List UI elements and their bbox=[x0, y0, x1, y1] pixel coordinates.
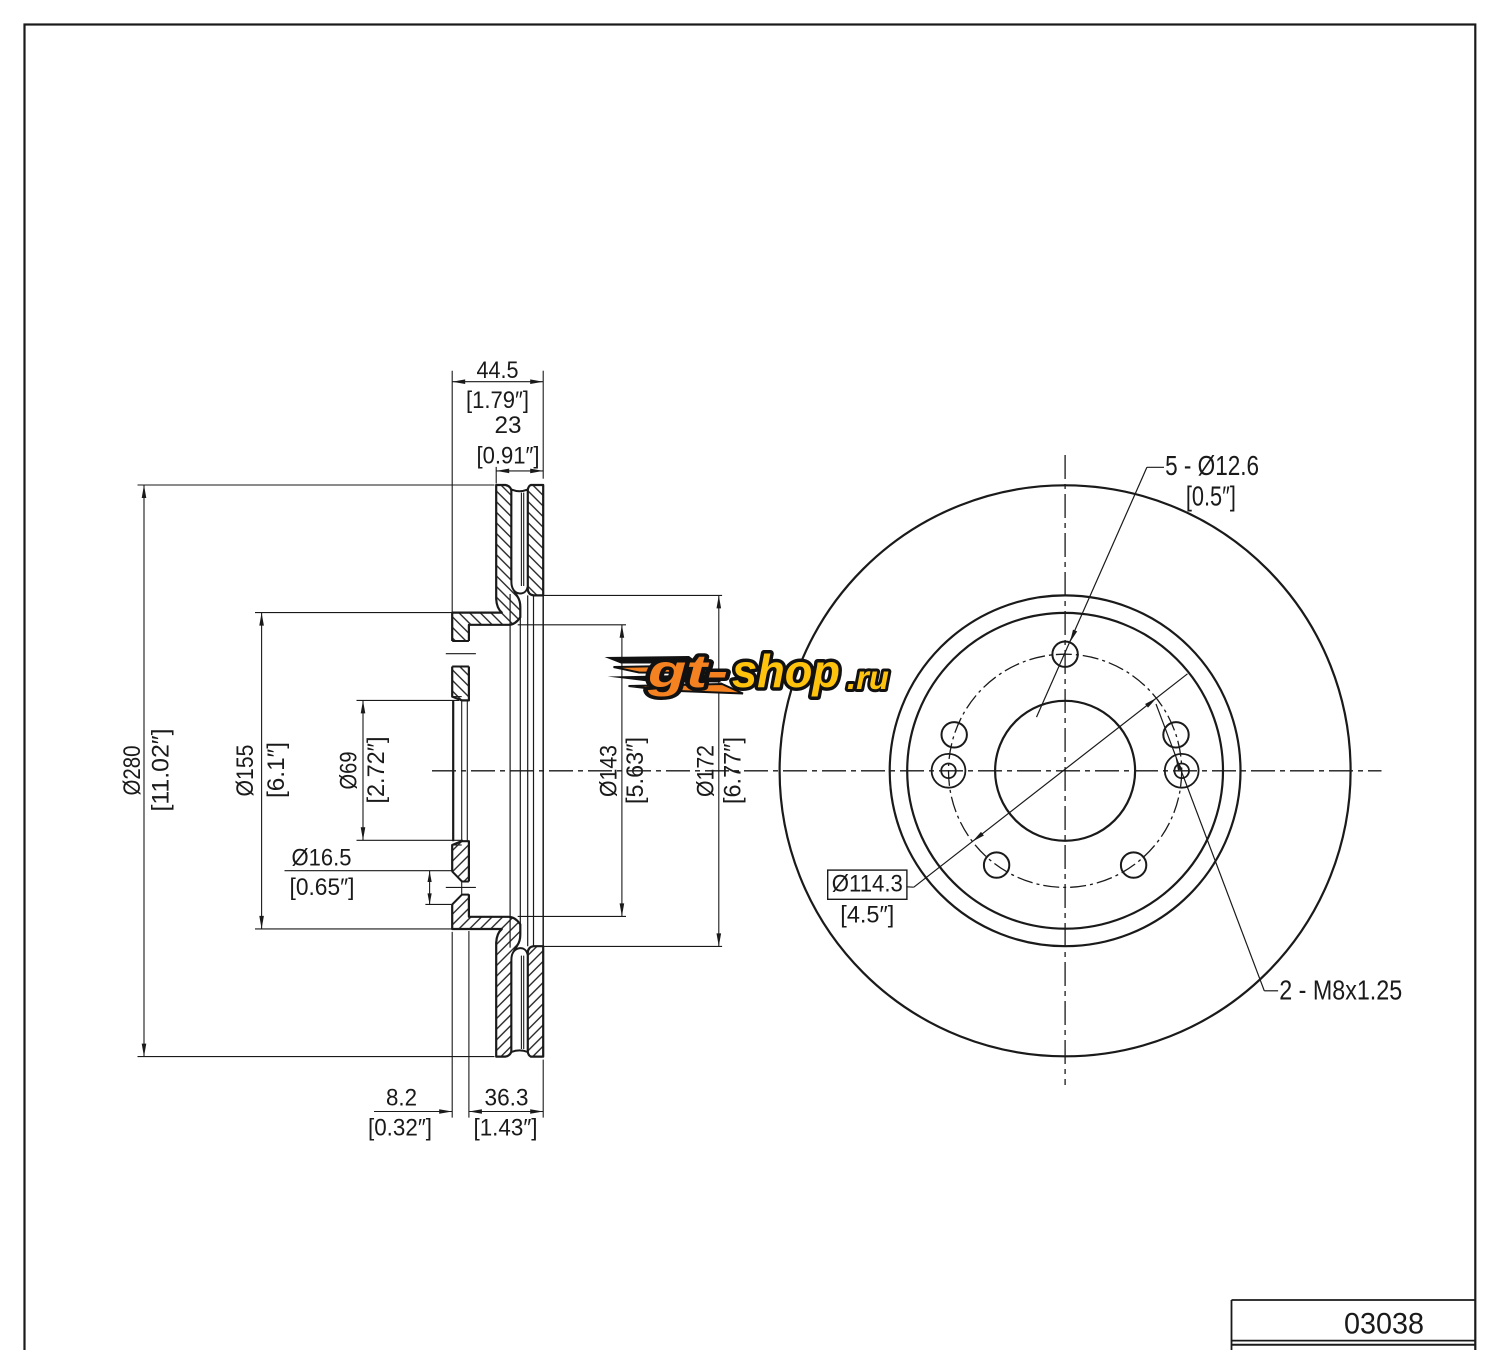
svg-text:[1.43″]: [1.43″] bbox=[474, 1115, 538, 1142]
bolt hole Ø12.6 cut through hat wall (top half) bbox=[451, 641, 470, 667]
bolt circle diameter leader line bbox=[914, 674, 1188, 887]
dim Ø172: dimension line with arrows bbox=[718, 595, 720, 946]
dim Ø143: extension lines bbox=[518, 624, 626, 626]
section view: vent channel slot (top half) bbox=[511, 490, 527, 594]
section view: hatched left plate + hat flange + hat wall (bottom half, mirrored) bbox=[452, 841, 520, 1056]
gt-shop.ru watermark logo bbox=[605, 645, 890, 697]
lug bolt hole Ø12.6 #4 bbox=[1121, 852, 1146, 877]
dim 8.2: dimension line with outside arrow bbox=[374, 1111, 452, 1113]
svg-text:[0.91″]: [0.91″] bbox=[477, 442, 540, 469]
vent vane edge lines inside channel (top) bbox=[520, 493, 522, 586]
svg-text:.ru: .ru bbox=[847, 659, 889, 696]
leader 2 - M8x1.25 bbox=[1156, 704, 1264, 991]
svg-text:23: 23 bbox=[495, 412, 522, 439]
svg-text:[11.02″]: [11.02″] bbox=[148, 729, 175, 812]
vent vane edge lines inside channel (bottom) bbox=[520, 956, 522, 1049]
svg-text:Ø155: Ø155 bbox=[232, 745, 259, 797]
fillet silhouette line (x=520.3) bbox=[519, 617, 521, 924]
svg-text:Ø172: Ø172 bbox=[693, 745, 720, 797]
lug bolt hole Ø12.6 #1 bbox=[1052, 642, 1077, 667]
svg-text:8.2: 8.2 bbox=[386, 1085, 417, 1112]
dim Ø16.5 leader and mini dimension bbox=[285, 870, 452, 872]
leader 5 - Ø12.6 bbox=[1147, 466, 1164, 468]
svg-text:gt-: gt- bbox=[647, 645, 728, 697]
title block bbox=[1232, 1299, 1476, 1301]
dim 44.5: extension lines bbox=[451, 371, 453, 612]
dim Ø155: dimension line with arrows bbox=[261, 613, 263, 929]
dim Ø69: dimension line with arrows bbox=[362, 700, 364, 840]
main horizontal centerline (dash-dot) bbox=[432, 770, 1382, 772]
chamfer edge line at hat bore (bottom) bbox=[452, 844, 462, 846]
bore wall line (x=467.3) bbox=[466, 700, 468, 841]
M8 tapped hole with Ø16.5 spot face, in hat wall (bottom half) bbox=[451, 871, 470, 904]
chamfer edge line at hat bore (top) bbox=[452, 696, 462, 698]
svg-text:36.3: 36.3 bbox=[485, 1085, 529, 1112]
svg-text:[6.1″]: [6.1″] bbox=[263, 742, 290, 798]
silhouette line below vent (x=510.1) bbox=[509, 594, 511, 948]
svg-text:5 - Ø12.6: 5 - Ø12.6 bbox=[1165, 450, 1259, 481]
svg-text:[1.79″]: [1.79″] bbox=[466, 387, 529, 414]
svg-text:[5.63″]: [5.63″] bbox=[622, 737, 649, 804]
dim Ø172: extension lines bbox=[542, 594, 722, 596]
svg-text:Ø280: Ø280 bbox=[119, 746, 146, 796]
right plate face continuation (x=527.7) bbox=[527, 595, 529, 946]
center bore circle Ø69 bbox=[995, 701, 1135, 841]
svg-text:44.5: 44.5 bbox=[477, 357, 519, 384]
dim Ø155: extension lines bbox=[255, 612, 452, 614]
outer circle Ø280 bbox=[780, 485, 1351, 1056]
bolt circle Ø114.3 (dash-dot) bbox=[949, 654, 1182, 887]
svg-text:Ø114.3: Ø114.3 bbox=[832, 871, 903, 898]
section view: hatched right plate, bottom half bbox=[528, 946, 544, 1056]
lug bolt hole Ø12.6 #3 bbox=[984, 852, 1009, 877]
section view: hatched right (inboard) plate, top half bbox=[528, 485, 544, 595]
dim 23: extension line bbox=[495, 467, 497, 484]
dim Ø280: extension lines bbox=[138, 484, 495, 486]
boxed Ø114.3 bolt-circle dimension bbox=[828, 870, 907, 899]
svg-text:2 - M8x1.25: 2 - M8x1.25 bbox=[1279, 975, 1402, 1006]
dim Ø280: dimension line with arrows bbox=[143, 485, 145, 1057]
hat mounting face seen through (vertical) bbox=[542, 595, 544, 946]
svg-text:shop: shop bbox=[732, 645, 840, 697]
lug bolt hole Ø12.6 #5 bbox=[1163, 722, 1188, 747]
svg-text:Ø143: Ø143 bbox=[596, 745, 623, 797]
svg-text:[0.5″]: [0.5″] bbox=[1186, 481, 1236, 512]
dim 36.3: dimension line with arrows bbox=[469, 1111, 543, 1113]
bore chamfer edge line (x=461.7) bbox=[461, 700, 463, 841]
svg-text:[0.65″]: [0.65″] bbox=[290, 874, 355, 901]
dim Ø143: dimension line with arrows bbox=[621, 625, 623, 917]
logo speed lines bbox=[605, 656, 700, 664]
dim Ø69: extension lines bbox=[357, 699, 460, 701]
hat flange circle Ø155 bbox=[907, 613, 1223, 929]
svg-text:[4.5″]: [4.5″] bbox=[840, 902, 894, 929]
lug bolt hole Ø12.6 #2 bbox=[942, 722, 967, 747]
svg-text:[2.72″]: [2.72″] bbox=[363, 737, 390, 804]
logo text gt-shop bbox=[647, 645, 889, 697]
svg-text:Ø16.5: Ø16.5 bbox=[292, 844, 352, 871]
svg-text:Ø69: Ø69 bbox=[336, 752, 363, 790]
bore silhouette thick line (x=453.2) bbox=[452, 700, 454, 841]
M8x1.25 service hole with Ø16.5 spot face (right) bbox=[1165, 754, 1199, 788]
section view: hatched left plate + hat flange + hat wall (top half) bbox=[452, 485, 520, 700]
section view: vent channel slot (bottom half) bbox=[511, 948, 527, 1052]
friction surface inner circle Ø172 bbox=[890, 595, 1241, 946]
svg-text:[6.77″]: [6.77″] bbox=[720, 737, 747, 804]
front view vertical centerline bbox=[1064, 455, 1066, 1085]
svg-text:[0.32″]: [0.32″] bbox=[368, 1115, 432, 1142]
bolt hole centerline tick (top) bbox=[446, 653, 476, 655]
dim 23: dimension line with arrows bbox=[496, 470, 543, 472]
M8 hole centerline tick (bottom) bbox=[446, 886, 476, 888]
svg-text:03038: 03038 bbox=[1344, 1308, 1424, 1341]
hub pilot face line (x=533.5) bbox=[533, 595, 535, 946]
M8x1.25 service hole with Ø16.5 spot face (left) bbox=[932, 754, 966, 788]
dims 8.2 / 36.3: extension lines bbox=[451, 932, 453, 1118]
dim 44.5: dimension line with arrows bbox=[452, 381, 543, 383]
